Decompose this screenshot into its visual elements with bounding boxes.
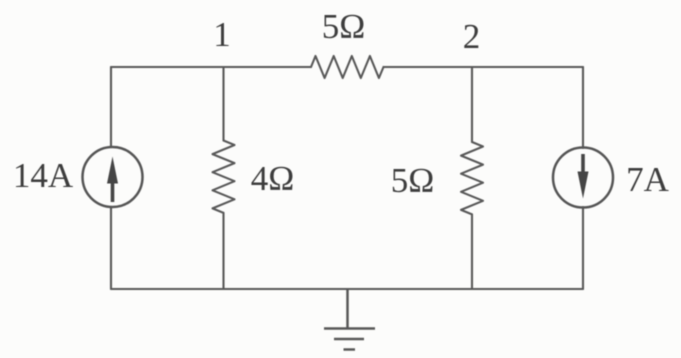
wire: node 1 vertical, R2 to bottom wire (222, 213, 224, 289)
svg-text:7A: 7A (626, 160, 670, 199)
ground symbol (324, 289, 375, 350)
resistor R3 5ohm vertical zigzag (461, 142, 483, 214)
svg-text:14A: 14A (13, 156, 74, 195)
wire: top horizontal, R1 right lead to right corner (384, 66, 584, 68)
wire: right vertical, I2 to bottom corner (582, 207, 584, 289)
svg-text:1: 1 (213, 15, 231, 54)
wire: left vertical, top corner to I1 (110, 67, 112, 147)
wire: node 2 vertical, top wire to R3 (471, 67, 473, 142)
wire: bottom horizontal rail (111, 288, 583, 290)
resistor R2 4ohm vertical zigzag (213, 141, 235, 213)
resistor R1 5ohm horizontal zigzag (311, 56, 384, 78)
svg-text:5Ω: 5Ω (391, 161, 435, 200)
current source I2 7A (circle with down arrow) (553, 148, 613, 208)
wire: left vertical, I1 to bottom corner (110, 207, 112, 289)
wire: node 2 vertical, R3 to bottom wire (471, 214, 473, 289)
current source I1 14A (circle with up arrow) (83, 147, 143, 207)
svg-text:4Ω: 4Ω (251, 159, 295, 198)
wire: top horizontal, left corner to R1 left lead (111, 66, 311, 68)
wire: right vertical, top corner to I2 (582, 67, 584, 148)
svg-text:5Ω: 5Ω (322, 7, 366, 46)
svg-text:2: 2 (463, 17, 481, 56)
wire: node 1 vertical, top wire to R2 (222, 67, 224, 141)
